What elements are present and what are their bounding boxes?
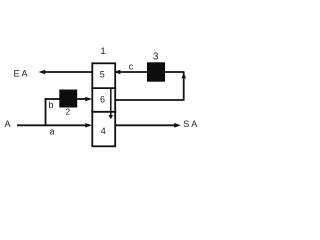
- arrowhead into block 4 (points right): [85, 123, 92, 128]
- svg-text:b: b: [49, 100, 54, 110]
- wire feedback vertical: [183, 72, 185, 100]
- wire c: gate 3 to block 5: [120, 71, 148, 73]
- arrowhead into block 5 (points left): [114, 70, 121, 75]
- svg-text:1: 1: [100, 46, 105, 57]
- divider between block 6 and block 4: [91, 111, 116, 113]
- wire branch up from a: [45, 98, 47, 126]
- arrowhead S A (points right): [174, 123, 181, 128]
- svg-text:5: 5: [100, 70, 105, 80]
- wire E A output: [44, 71, 92, 73]
- svg-text:S A: S A: [183, 119, 197, 129]
- arrowhead up at corner: [181, 74, 186, 79]
- register stack outline U1: [92, 63, 115, 146]
- svg-text:6: 6: [100, 94, 105, 104]
- svg-text:c: c: [129, 61, 134, 71]
- svg-text:2: 2: [66, 107, 71, 116]
- wire gate 3 to right corner: [165, 71, 185, 73]
- internal arrow from block 5 down into block 4: [110, 88, 112, 116]
- wire feedback bottom from block 6: [116, 99, 185, 101]
- svg-text:3: 3: [153, 52, 159, 63]
- wire b into gate 2: [45, 98, 60, 100]
- wire gate 2 to block 6: [77, 98, 86, 100]
- divider between block 5 and block 6: [91, 87, 116, 89]
- arrowhead into block 6 (points right): [85, 97, 92, 102]
- wire S A output from block 4: [116, 124, 175, 126]
- arrowhead E A (points left): [39, 70, 46, 75]
- svg-text:4: 4: [101, 126, 106, 136]
- svg-text:E A: E A: [14, 68, 28, 78]
- gate 3 (filled square): [147, 62, 165, 81]
- svg-text:A: A: [5, 119, 11, 129]
- gate 2 (filled square): [59, 90, 77, 108]
- svg-text:a: a: [50, 127, 55, 137]
- wire a: A input to block 4: [17, 124, 87, 126]
